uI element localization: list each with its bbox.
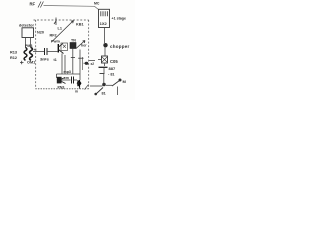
transformer T1 right winding [30, 48, 33, 61]
node chopper junction [103, 43, 107, 47]
switch contact dot [119, 79, 122, 82]
dashed enclosure box right edge [88, 20, 90, 89]
wire [103, 68, 105, 73]
svg-text:her: her [81, 44, 87, 48]
capacitor C3 [72, 77, 74, 84]
wire to switch [106, 84, 112, 86]
switch arm lower with blob [96, 88, 103, 95]
svg-text:C05: C05 [110, 59, 118, 64]
svg-text:R13: R13 [10, 51, 17, 55]
transistor Q1 [57, 44, 59, 53]
svg-text:mp3: mp3 [64, 70, 71, 74]
dashed enclosure box left edge [35, 20, 37, 88]
svg-text:L1: L1 [58, 27, 62, 31]
wire bottom bus [57, 73, 81, 75]
wire down from switch [117, 87, 119, 96]
svg-text:RF2: RF2 [50, 34, 57, 38]
svg-text:- 81: - 81 [108, 72, 115, 76]
resistor R box C05 [102, 56, 108, 63]
wire [62, 79, 71, 81]
wire from dashed box to junction [90, 85, 103, 87]
dotted enclosure box bottom edge [36, 88, 89, 90]
wire detector leads [26, 38, 31, 49]
svg-text:3nFs: 3nFs [40, 58, 49, 62]
cross tick [20, 61, 24, 64]
bead component [84, 62, 86, 64]
wire break slash [38, 2, 43, 8]
svg-text:detector: detector [19, 24, 35, 28]
capacitor C plates [99, 66, 108, 68]
wire top horizontal [44, 6, 99, 10]
wire [79, 88, 81, 90]
dashed enclosure box top edge [34, 19, 89, 21]
detector box [22, 28, 34, 38]
svg-text:TN: TN [71, 39, 76, 43]
wire [74, 79, 78, 81]
capacitor C2 plates [45, 48, 48, 55]
svg-text:x2: x2 [91, 62, 95, 66]
wire [104, 47, 106, 56]
tick on second column [78, 57, 83, 59]
svg-text:N20: N20 [37, 31, 44, 35]
transformer T1 left winding [24, 48, 27, 61]
wire stub [56, 74, 58, 78]
stage box U1 [99, 9, 110, 27]
diagonal mark near corner [85, 85, 89, 90]
tick on mid column [71, 57, 75, 59]
svg-text:KB1: KB1 [76, 23, 84, 27]
wire [103, 74, 105, 83]
svg-text:+1 stage: +1 stage [112, 17, 126, 21]
svg-text:81: 81 [102, 92, 106, 96]
svg-text:RF: RF [30, 2, 36, 7]
svg-text:1X2: 1X2 [100, 21, 108, 26]
stub wire right edge [89, 60, 96, 62]
L1 stub wire [54, 18, 56, 26]
svg-text:m: m [75, 90, 78, 94]
arrow diagonal tuning [52, 21, 74, 43]
transistor Q3 blob [77, 81, 81, 85]
wire from transformer to capacitor [33, 51, 44, 53]
wire [104, 63, 106, 66]
arrow from diode [76, 41, 85, 49]
battery tick 81 [100, 73, 105, 75]
svg-text:887: 887 [109, 66, 116, 71]
svg-text:MC: MC [94, 2, 100, 6]
svg-text:OM1: OM1 [27, 61, 35, 65]
svg-text:cm: cm [64, 76, 69, 80]
wire cap to transistor [47, 51, 58, 53]
diode D1 box [70, 43, 76, 49]
wire third column [82, 57, 84, 70]
wire pair down from Q1 [62, 54, 65, 75]
wire second column [79, 50, 81, 81]
wire mid column [72, 49, 74, 75]
wire from stage box down [104, 28, 106, 44]
svg-text:R12: R12 [10, 56, 17, 60]
svg-text:chopper: chopper [110, 44, 130, 49]
switch arm S1 [112, 81, 120, 87]
svg-text:PN3: PN3 [58, 85, 65, 89]
transistor Q2 blob [57, 77, 62, 84]
tick left of resistor [98, 59, 102, 61]
node switch junction [102, 83, 106, 87]
svg-text:t1: t1 [54, 58, 57, 62]
pin marks inside stage box [101, 11, 108, 16]
